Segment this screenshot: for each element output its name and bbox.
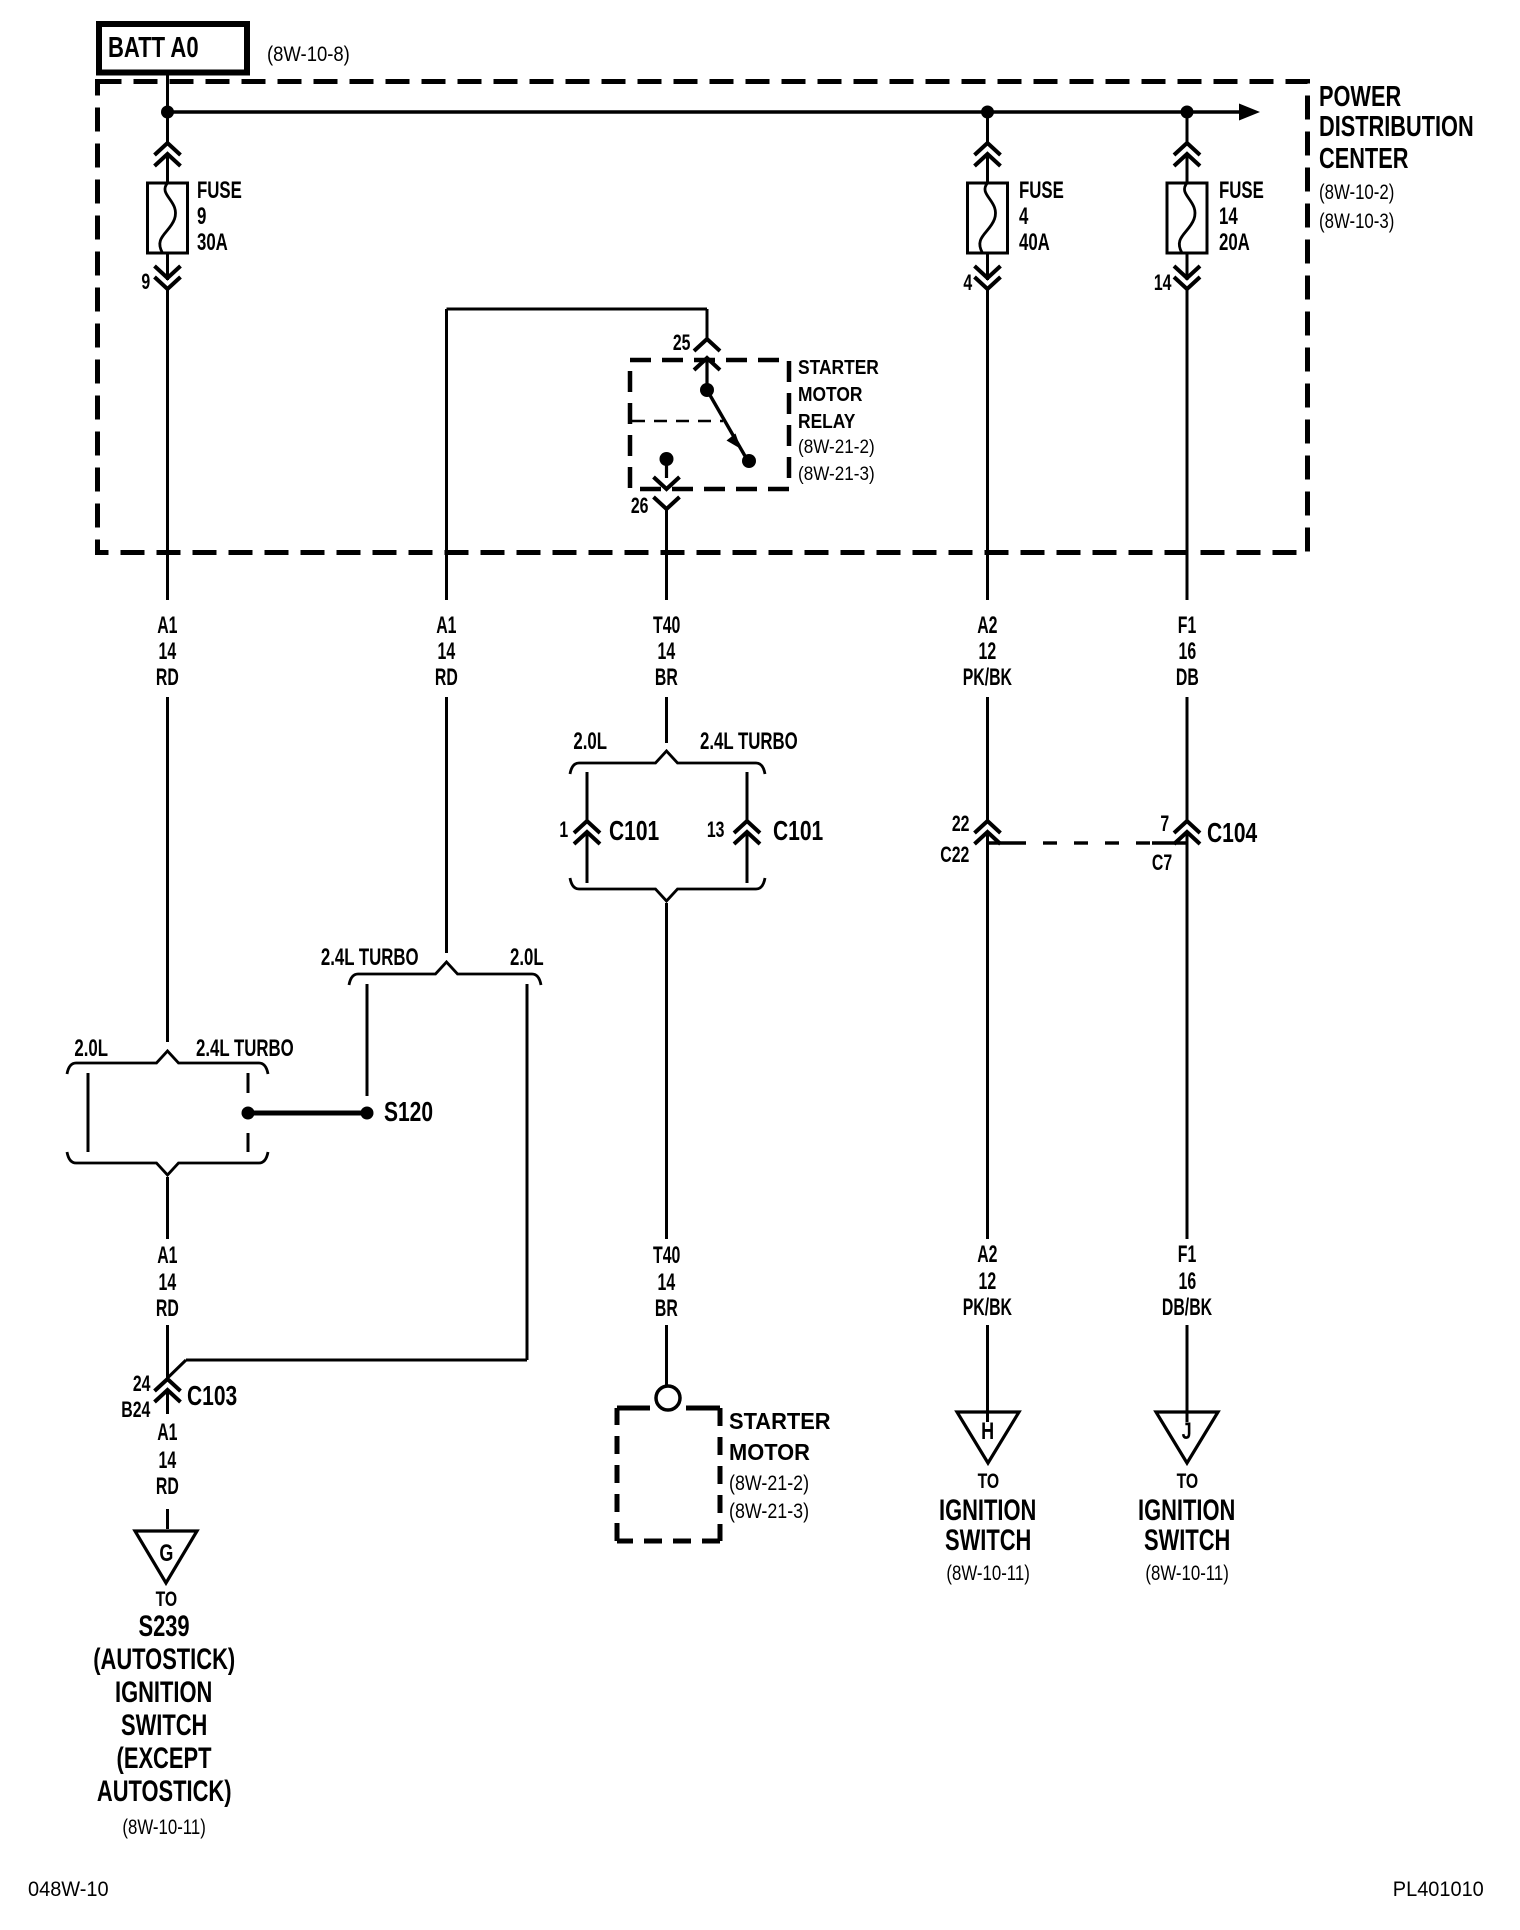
refs starter motor — [729, 1473, 823, 1494]
bus wire from BATT A0 with arrow — [168, 75, 1261, 145]
wire W5 to J triangle — [1186, 1325, 1189, 1422]
wire W2 lower segment — [445, 697, 448, 953]
junction node at fuse 9 — [161, 106, 174, 119]
relay rest-position dashed line — [632, 420, 723, 422]
connector C104 dashed link — [988, 841, 1188, 844]
splice S120 label — [384, 1098, 449, 1126]
fuse F4 40A — [968, 183, 1008, 253]
wire label T40 14 BR — [367, 614, 967, 638]
branch 2.0L of split1 — [87, 1073, 90, 1152]
pin 26 — [624, 495, 648, 517]
wire label A2 12 PK/BK lower — [688, 1243, 1288, 1267]
label TO (G) — [0, 1589, 466, 1610]
pin B24 — [110, 1399, 150, 1421]
wire label T40 14 BR lower — [367, 1244, 967, 1268]
wire to relay pin 25 — [447, 309, 708, 339]
connector C101 (2.4L) — [773, 817, 840, 845]
connector C101 pin 1 chevrons — [574, 821, 600, 844]
label POWER DISTRIBUTION CENTER — [1319, 83, 1429, 112]
wire label A1 14 RD (relay feed) — [147, 614, 747, 638]
wire W4 to H triangle — [986, 1325, 989, 1422]
label 2.0L at split1 — [60, 1037, 108, 1061]
refs starter motor relay — [798, 438, 883, 457]
label fuse F14 — [1219, 179, 1283, 203]
connector C104 — [1207, 819, 1274, 847]
connector chevrons above fuse 9 — [155, 143, 181, 166]
pin 14 — [1147, 272, 1171, 294]
wire W2 upper segment — [445, 309, 448, 600]
ref (8W-10-8) — [267, 44, 361, 65]
wire W1 stub below C103 — [166, 1390, 169, 1414]
relay common contact node — [700, 383, 714, 397]
page code PL401010 — [1388, 1879, 1484, 1900]
wire W1 to C103 — [166, 1325, 169, 1381]
engine split brace above C101 — [570, 751, 765, 774]
refs PDC pages — [1319, 182, 1413, 203]
connector C103 pin chevrons — [155, 1379, 181, 1402]
connector chevrons below fuse 14 (pin 14) — [1174, 266, 1200, 289]
label 2.4L TURBO at C101 — [700, 730, 840, 754]
relay pin 26 connector below box — [654, 497, 680, 509]
branch 2.0L bypass wire — [168, 984, 528, 1378]
pin C22 — [929, 844, 969, 866]
connector C101 pin 13 chevrons — [734, 821, 760, 844]
wire label F1 16 DB — [887, 614, 1487, 638]
connector C103 — [187, 1382, 254, 1410]
off-page connector J — [1156, 1412, 1218, 1463]
wire label F1 16 DB/BK lower — [887, 1243, 1487, 1267]
starter motor relay dashed box — [630, 360, 789, 489]
wire W4 mid segment — [986, 697, 989, 1239]
relay normally-open contact node — [742, 454, 756, 468]
relay coil pin 26 node — [660, 452, 674, 466]
wire W1 below split1 — [166, 1177, 169, 1239]
label 2.4L TURBO at split2 — [279, 946, 419, 970]
connector C104 pin 7 chevrons — [1174, 821, 1200, 844]
label 2.4L TURBO at split1 — [196, 1037, 336, 1061]
page code 048W-10 — [28, 1879, 113, 1900]
fuse F14 20A — [1167, 183, 1207, 253]
ref (8W-10-11) H — [688, 1563, 1288, 1584]
connector chevrons below fuse 9 (pin 9) — [155, 266, 181, 289]
branch 2.4L turbo to C101 pin 13 — [746, 772, 749, 883]
wire label A1 14 RD below C103 — [0, 1421, 468, 1445]
ref (8W-10-11) J — [887, 1563, 1487, 1584]
starter motor dashed box — [617, 1408, 720, 1541]
pin 7 — [1157, 813, 1169, 835]
label BATT A0 — [108, 34, 227, 63]
letter J — [887, 1420, 1487, 1444]
wire fuse9 to PDC exit — [166, 154, 169, 600]
connector chevrons above fuse 14 — [1174, 143, 1200, 166]
relay movable contact arm — [707, 390, 745, 456]
junction node at fuse 4 — [981, 106, 994, 119]
off-page connector G — [135, 1531, 197, 1583]
label 2.0L at split2 — [510, 946, 558, 970]
label fuse F4 — [1019, 179, 1083, 203]
destination S239 ignition switch — [0, 1612, 464, 1642]
label starter motor relay — [798, 358, 891, 378]
wire label A1 14 RD lower — [0, 1244, 468, 1268]
pin 25 — [666, 332, 690, 354]
splice node on branch — [242, 1107, 255, 1120]
wire fuse14 down — [1186, 112, 1189, 600]
pin 4 — [960, 272, 972, 294]
connector chevrons below fuse 4 (pin 4) — [975, 266, 1001, 289]
fuse F9 30A — [148, 183, 188, 253]
junction node at fuse 14 — [1181, 106, 1194, 119]
letter G — [0, 1542, 466, 1566]
pin 9 — [138, 271, 150, 293]
label starter motor — [729, 1410, 836, 1433]
wire W1 to G triangle — [166, 1509, 169, 1529]
wire label A1 14 RD (left) — [0, 614, 468, 638]
connector C104 pin 22 chevrons — [975, 821, 1001, 844]
connector C101 (2.0L) — [609, 817, 676, 845]
wire W5 mid segment — [1186, 697, 1189, 1239]
splice S120 node — [361, 1107, 374, 1120]
off-page connector H — [957, 1412, 1019, 1463]
starter motor terminal circle — [656, 1386, 680, 1410]
wire W1 to split1 — [166, 697, 169, 1042]
wire W3 to C101 split — [665, 697, 668, 743]
engine split brace above S120 section — [67, 1051, 268, 1074]
branch 2.4L turbo to S120 — [366, 984, 369, 1096]
label TO (J) — [887, 1471, 1487, 1492]
wire label A2 12 PK/BK — [688, 614, 1288, 638]
pin 13 C101 — [700, 819, 724, 841]
ref (8W-10-11) G — [0, 1817, 464, 1838]
branch 2.0L to C101 pin 1 — [586, 772, 589, 883]
engine split brace below W2 — [349, 962, 541, 985]
pin 1 C101 — [556, 819, 568, 841]
label 2.0L at C101 — [559, 730, 607, 754]
label TO (H) — [688, 1471, 1288, 1492]
wire W3 to starter motor — [665, 903, 668, 1386]
pin C7 — [1144, 852, 1172, 874]
wire fuse4 down — [986, 112, 989, 600]
relay pin 25 connector — [694, 339, 720, 390]
letter H — [688, 1420, 1288, 1444]
connector chevrons above fuse 4 — [975, 143, 1001, 166]
pin 22 — [945, 813, 969, 835]
pin 24 — [126, 1373, 150, 1395]
engine split brace below C101 — [570, 878, 765, 901]
destination ignition switch J — [887, 1496, 1487, 1526]
relay pin 26 down arrow — [654, 459, 680, 489]
splice S120 link — [248, 1111, 367, 1116]
power distribution center dashed box — [98, 82, 1308, 553]
engine split closing brace — [67, 1152, 268, 1175]
battery feed box BATT A0 — [99, 24, 247, 73]
destination ignition switch H — [688, 1496, 1288, 1526]
wire W3 from relay pin 26 — [665, 509, 668, 600]
branch 2.4L turbo dashed of split1 — [247, 1073, 250, 1152]
label fuse F9 — [197, 179, 261, 203]
